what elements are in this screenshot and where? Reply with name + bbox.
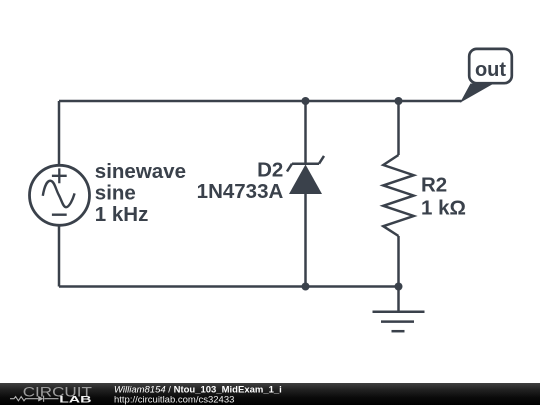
svg-text:out: out xyxy=(475,59,506,81)
wire resistor bottom lead xyxy=(397,236,400,287)
svg-text:LAB: LAB xyxy=(59,394,91,405)
svg-text:http://circuitlab.com/cs32433: http://circuitlab.com/cs32433 xyxy=(114,394,234,405)
junction dot bottom diode node xyxy=(302,283,310,291)
junction dot top resistor node xyxy=(395,97,403,105)
svg-text:R2: R2 xyxy=(421,174,447,197)
zener diode D2 xyxy=(287,156,324,194)
svg-text:D2: D2 xyxy=(257,159,283,182)
wire left vertical from top wire to source xyxy=(58,101,61,165)
junction dot bottom resistor node xyxy=(395,283,403,291)
svg-text:1 kHz: 1 kHz xyxy=(95,203,149,226)
wire diode bottom lead xyxy=(304,194,307,287)
resistor R2 zigzag xyxy=(383,155,413,236)
wire left vertical from source to bottom wire xyxy=(58,226,61,287)
CircuitLab logo resistor-diode squiggle xyxy=(10,396,59,402)
wire resistor top lead xyxy=(397,101,400,155)
svg-text:1N4733A: 1N4733A xyxy=(197,180,284,203)
wire bottom horizontal ground net xyxy=(59,285,399,288)
svg-text:sine: sine xyxy=(95,182,136,205)
junction dot top diode node xyxy=(302,97,310,105)
svg-text:sinewave: sinewave xyxy=(95,160,186,183)
wire top horizontal net out xyxy=(59,100,462,103)
footer bar xyxy=(0,383,540,405)
svg-text:1 kΩ: 1 kΩ xyxy=(421,196,466,219)
ground symbol xyxy=(373,287,425,332)
voltage source V1 sinewave xyxy=(30,165,90,225)
node flag out xyxy=(460,49,512,103)
wire diode top lead xyxy=(304,101,307,164)
